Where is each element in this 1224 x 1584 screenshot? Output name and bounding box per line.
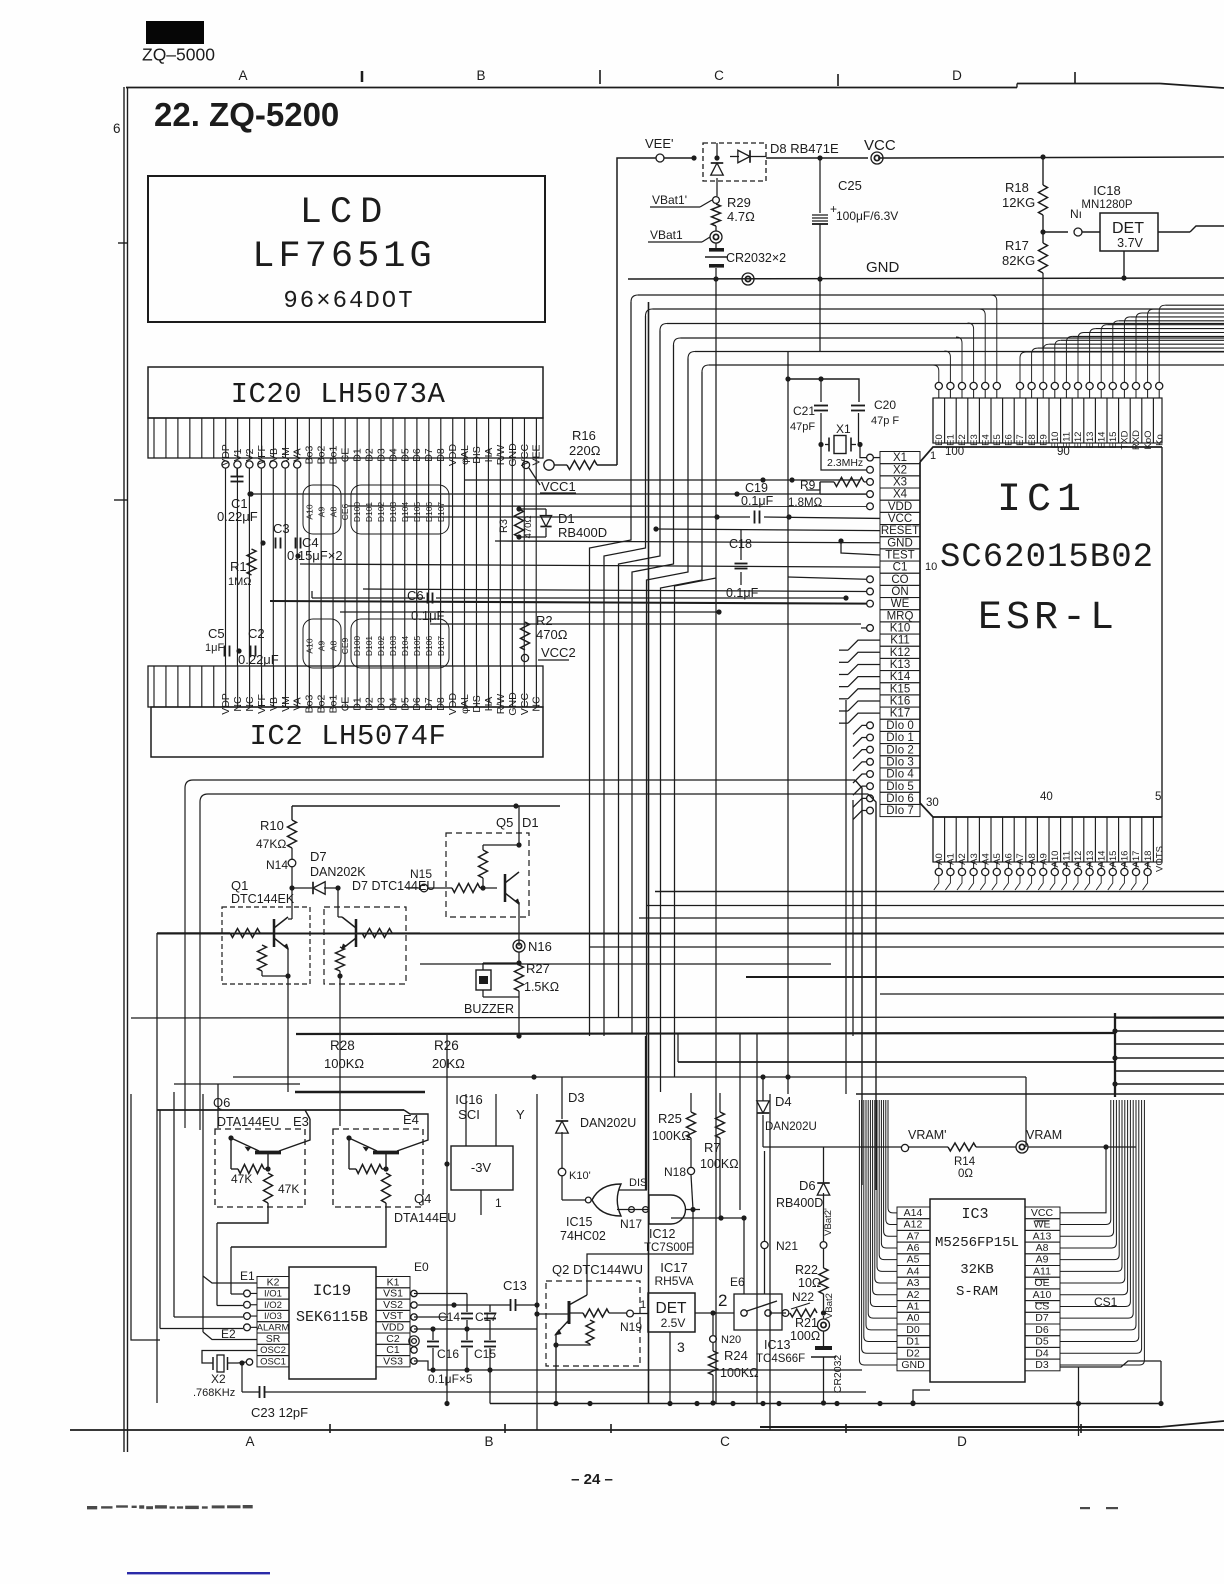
svg-text:KoO: KoO <box>1143 430 1154 449</box>
svg-text:D5: D5 <box>399 697 411 711</box>
svg-text:D3: D3 <box>375 697 387 711</box>
svg-text:VS3: VS3 <box>383 1355 403 1367</box>
svg-text:NC: NC <box>531 696 543 712</box>
svg-text:VDD: VDD <box>382 1322 405 1334</box>
logo block (black) <box>146 21 204 44</box>
svg-text:VB: VB <box>268 448 280 462</box>
svg-text:E0: E0 <box>934 434 945 446</box>
svg-text:R10: R10 <box>260 818 284 833</box>
svg-text:1.8MΩ: 1.8MΩ <box>788 497 823 509</box>
svg-text:DIo 6: DIo 6 <box>886 793 914 805</box>
svg-text:DET: DET <box>656 1300 688 1317</box>
svg-text:2.5V: 2.5V <box>661 1316 686 1330</box>
svg-text:R24: R24 <box>724 1348 748 1363</box>
svg-text:K13: K13 <box>890 659 910 671</box>
svg-text:D106: D106 <box>424 636 434 657</box>
svg-text:D5: D5 <box>1035 1336 1049 1348</box>
svg-text:74HC02: 74HC02 <box>560 1229 606 1243</box>
svg-text:IC1: IC1 <box>997 478 1087 523</box>
IC1 top pin strip <box>933 398 1162 443</box>
svg-text:.768KHz: .768KHz <box>193 1387 235 1399</box>
svg-text:E15: E15 <box>1108 432 1119 449</box>
svg-text:D8 RB471E: D8 RB471E <box>770 141 839 156</box>
svg-text:SCI: SCI <box>458 1107 480 1122</box>
svg-text:D: D <box>952 68 962 83</box>
wire VCC rail <box>766 157 868 159</box>
svg-text:C16: C16 <box>437 1347 459 1361</box>
resistor R9 1.8M <box>867 479 874 486</box>
capacitor C4 <box>295 538 297 549</box>
svg-text:A7: A7 <box>907 1230 920 1242</box>
diode D1 RB400D <box>540 516 551 527</box>
svg-text:D107: D107 <box>436 636 446 657</box>
svg-text:1: 1 <box>495 1196 502 1210</box>
svg-text:5: 5 <box>1155 791 1161 803</box>
svg-text:47p F: 47p F <box>871 415 899 427</box>
svg-text:D102: D102 <box>376 502 386 523</box>
wire bus horizontal top <box>638 294 1224 296</box>
wire verticals left cluster <box>156 933 158 1403</box>
node K10' <box>558 1168 566 1176</box>
svg-text:D4: D4 <box>1035 1347 1049 1359</box>
capacitor C1 <box>231 476 244 478</box>
svg-text:S-RAM: S-RAM <box>956 1284 998 1300</box>
svg-text:0.15μF×2: 0.15μF×2 <box>287 548 343 563</box>
svg-text:D3: D3 <box>568 1090 585 1105</box>
resistor R1 1M <box>247 549 256 575</box>
svg-text:DIS: DIS <box>471 695 483 713</box>
svg-text:DIS: DIS <box>629 1177 647 1189</box>
svg-text:A7: A7 <box>1015 853 1026 865</box>
svg-text:X2: X2 <box>211 1372 226 1386</box>
wire bottom bus lines <box>490 1403 1161 1405</box>
svg-text:A8: A8 <box>1036 1242 1049 1254</box>
svg-text:R3: R3 <box>498 519 510 533</box>
tick left <box>118 242 127 244</box>
svg-text:0Ω: 0Ω <box>958 1168 973 1180</box>
node N14 <box>288 859 296 867</box>
wire right column lines <box>1114 1013 1116 1097</box>
svg-text:D7: D7 <box>423 697 435 711</box>
svg-text:A10: A10 <box>1033 1289 1052 1301</box>
svg-text:DET: DET <box>1112 220 1144 237</box>
wire MRQ row <box>716 609 721 614</box>
svg-text:NC: NC <box>232 696 244 712</box>
svg-text:IC15: IC15 <box>566 1215 592 1229</box>
svg-text:D6: D6 <box>1035 1324 1049 1336</box>
svg-text:A13: A13 <box>1085 851 1096 868</box>
svg-text:A6: A6 <box>907 1242 920 1254</box>
svg-text:A12: A12 <box>904 1219 923 1231</box>
wire heavy vertical <box>648 302 650 1403</box>
svg-text:E14: E14 <box>1096 432 1107 449</box>
IC3 left wire fan <box>888 1100 897 1213</box>
svg-text:N21: N21 <box>776 1239 798 1253</box>
svg-text:TC7S00F: TC7S00F <box>644 1242 693 1254</box>
resistor R10 47K <box>291 806 293 820</box>
svg-text:40: 40 <box>1040 791 1053 803</box>
svg-text:A18: A18 <box>1143 851 1154 868</box>
svg-text:Bo1: Bo1 <box>328 695 340 714</box>
svg-text:1: 1 <box>640 1299 646 1311</box>
svg-text:220Ω: 220Ω <box>569 443 601 458</box>
svg-text:Q1: Q1 <box>231 878 248 893</box>
tick <box>599 70 601 84</box>
svg-text:CO: CO <box>891 574 908 586</box>
svg-text:D101: D101 <box>364 636 374 657</box>
svg-text:A6: A6 <box>1004 853 1015 865</box>
svg-text:SC62015B02: SC62015B02 <box>940 539 1154 577</box>
svg-text:RXD: RXD <box>1131 430 1142 450</box>
svg-text:A5: A5 <box>992 853 1003 865</box>
LCD driver IC20 LH5073A <box>148 367 543 418</box>
wire vcc drop <box>819 279 821 352</box>
svg-text:D0: D0 <box>906 1324 920 1336</box>
svg-text:Ko: Ko <box>1154 434 1165 446</box>
svg-text:E13: E13 <box>1085 432 1096 449</box>
svg-text:A4: A4 <box>980 853 991 865</box>
battery CR2032x2 <box>715 226 717 231</box>
svg-text:D100: D100 <box>352 502 362 523</box>
node N17 bubbles <box>617 1209 649 1211</box>
svg-text:RB400D: RB400D <box>558 525 607 540</box>
svg-text:DIo 2: DIo 2 <box>886 744 914 756</box>
svg-text:R27: R27 <box>526 961 550 976</box>
svg-text:ESR-L: ESR-L <box>978 596 1118 641</box>
svg-text:IC19: IC19 <box>313 1282 351 1300</box>
svg-text:47pF: 47pF <box>790 421 815 433</box>
svg-text:A9: A9 <box>316 641 326 652</box>
svg-text:D104: D104 <box>400 502 410 523</box>
IC1 bottom pin circles <box>935 868 942 875</box>
svg-text:I/O3: I/O3 <box>264 1311 282 1322</box>
svg-text:E4: E4 <box>403 1112 419 1127</box>
svg-text:1MΩ: 1MΩ <box>228 576 252 588</box>
svg-text:0.22μF: 0.22μF <box>238 652 279 667</box>
rotated bus labels lower <box>303 619 341 668</box>
wire VEE <box>664 157 694 159</box>
svg-text:MRQ: MRQ <box>887 610 914 622</box>
svg-text:D7: D7 <box>1035 1312 1049 1324</box>
bottom tick <box>610 1424 612 1433</box>
svg-text:VA: VA <box>292 697 304 710</box>
svg-text:E12: E12 <box>1073 432 1084 449</box>
capacitor C6 <box>427 593 429 604</box>
svg-text:A12: A12 <box>1073 851 1084 868</box>
svg-text:A10: A10 <box>304 638 314 653</box>
svg-text:A17: A17 <box>1131 851 1142 868</box>
svg-text:GND: GND <box>901 1359 925 1371</box>
svg-text:D101: D101 <box>364 502 374 523</box>
controller IC19 SEK6115B <box>289 1267 376 1379</box>
svg-text:82KG: 82KG <box>1002 253 1035 268</box>
svg-text:X4: X4 <box>893 489 908 501</box>
svg-text:Y: Y <box>516 1107 525 1122</box>
wire vram vertical <box>1025 1077 1027 1147</box>
svg-text:VRAM: VRAM <box>1026 1128 1062 1142</box>
svg-text:C: C <box>714 68 724 83</box>
svg-text:K16: K16 <box>890 696 910 708</box>
svg-text:A10: A10 <box>1050 851 1061 868</box>
svg-text:VOTS: VOTS <box>1154 846 1165 872</box>
svg-text:VCC1: VCC1 <box>541 479 576 494</box>
buzzer <box>483 962 519 964</box>
svg-text:E6: E6 <box>1004 434 1015 446</box>
svg-text:47K: 47K <box>278 1182 299 1196</box>
fine print line <box>87 1505 1118 1509</box>
svg-text:-3V: -3V <box>471 1160 492 1175</box>
IC20 pin circles <box>222 461 229 468</box>
svg-text:A3: A3 <box>969 853 980 865</box>
svg-text:A0: A0 <box>934 853 945 865</box>
wire y1218 <box>671 1217 744 1219</box>
svg-text:D3: D3 <box>1035 1359 1049 1371</box>
resistor R2 470 <box>521 622 530 650</box>
battery CR2032 <box>815 1346 832 1350</box>
wire ic3 bottom <box>890 1382 913 1395</box>
svg-text:V2: V2 <box>244 448 256 461</box>
svg-text:E6: E6 <box>730 1275 745 1289</box>
svg-text:N18: N18 <box>664 1165 686 1179</box>
svg-text:R14: R14 <box>954 1156 976 1168</box>
svg-text:47KΩ: 47KΩ <box>256 837 286 851</box>
svg-text:CR2032×2: CR2032×2 <box>726 251 786 265</box>
wire battery vertical <box>715 279 717 1403</box>
wire left staircase verticals <box>202 1094 204 1332</box>
svg-text:Bo3: Bo3 <box>304 695 316 714</box>
svg-text:VBat1: VBat1 <box>650 228 683 242</box>
svg-text:E0: E0 <box>414 1260 429 1274</box>
svg-text:VB: VB <box>268 697 280 711</box>
svg-text:A13: A13 <box>1033 1230 1052 1242</box>
svg-text:D6: D6 <box>799 1178 816 1193</box>
node N19 <box>627 1310 634 1317</box>
svg-text:K14: K14 <box>890 671 911 683</box>
svg-text:D7 DTC144EU: D7 DTC144EU <box>352 879 435 893</box>
svg-text:DIo 1: DIo 1 <box>886 732 914 744</box>
svg-text:D100: D100 <box>352 636 362 657</box>
capacitor C5 <box>224 646 226 657</box>
svg-text:D105: D105 <box>412 636 422 657</box>
svg-text:C17: C17 <box>475 1310 497 1324</box>
crystal X2 32.768KHz <box>202 1351 257 1364</box>
svg-text:IC17: IC17 <box>660 1260 687 1275</box>
svg-text:C15: C15 <box>474 1347 496 1361</box>
svg-text:R7: R7 <box>704 1140 721 1155</box>
svg-text:A: A <box>245 1434 254 1449</box>
wire bus IC20 to IC2 verticals <box>225 468 227 666</box>
svg-text:0.1μF: 0.1μF <box>411 608 445 623</box>
svg-text:DTA144EU: DTA144EU <box>394 1211 456 1225</box>
svg-text:1.5KΩ: 1.5KΩ <box>524 980 559 994</box>
capacitor C3 <box>275 538 277 549</box>
svg-text:X1: X1 <box>836 422 851 436</box>
wire DIo rows <box>867 722 874 729</box>
svg-text:VDP: VDP <box>220 693 232 715</box>
svg-text:K10': K10' <box>569 1170 591 1182</box>
svg-text:A15: A15 <box>1108 851 1119 868</box>
IC3 right pins <box>1025 1207 1060 1219</box>
diode pack D8 RB471E <box>703 143 766 181</box>
svg-text:A2: A2 <box>957 853 968 865</box>
wire misc verticals bottom <box>677 1033 679 1062</box>
svg-text:Nı: Nı <box>1070 207 1082 221</box>
bottom tick <box>329 1424 331 1433</box>
svg-text:SEK6115B: SEK6115B <box>296 1309 368 1326</box>
resistor R18 12K <box>1040 154 1045 159</box>
svg-text:N15: N15 <box>410 867 432 881</box>
svg-text:K15: K15 <box>890 683 910 695</box>
svg-text:VST: VST <box>383 1310 404 1322</box>
svg-text:Q4: Q4 <box>414 1191 431 1206</box>
capacitor C21 47pF <box>820 379 822 402</box>
svg-text:IC3: IC3 <box>961 1206 988 1223</box>
svg-text:N17: N17 <box>620 1217 642 1231</box>
svg-text:V1: V1 <box>232 448 244 461</box>
svg-text:– 24 –: – 24 – <box>571 1471 613 1488</box>
svg-text:D103: D103 <box>388 502 398 523</box>
svg-text:D1: D1 <box>351 697 363 711</box>
svg-text:0.1μF×5: 0.1μF×5 <box>428 1372 473 1386</box>
svg-text:E2: E2 <box>957 434 968 446</box>
wire ic1 bottom fan <box>934 876 939 890</box>
svg-text:R9: R9 <box>800 478 816 492</box>
node N20 <box>710 1336 717 1343</box>
svg-text:D2: D2 <box>363 697 375 711</box>
IC1 top pin circles <box>935 382 942 389</box>
svg-text:CR2032: CR2032 <box>832 1355 844 1394</box>
node VBat1 <box>710 231 722 243</box>
svg-text:D4: D4 <box>387 697 399 711</box>
border frame <box>123 87 125 1452</box>
svg-text:4.7Ω: 4.7Ω <box>727 209 755 224</box>
wire pair down right <box>855 780 862 1185</box>
svg-text:R29: R29 <box>727 195 751 210</box>
wire bus extra line <box>675 578 717 1077</box>
svg-text:VCC: VCC <box>1031 1207 1054 1219</box>
svg-text:A14: A14 <box>1096 851 1107 868</box>
wire rail above Q6 <box>157 1109 404 1111</box>
bottom tick <box>504 1424 506 1433</box>
wire C1 row <box>300 564 880 567</box>
svg-text:D105: D105 <box>412 502 422 523</box>
wire VCC row with C19 <box>405 516 750 518</box>
svg-text:K10: K10 <box>890 623 910 635</box>
svg-text:12KG: 12KG <box>1002 195 1035 210</box>
svg-text:B: B <box>476 68 485 83</box>
svg-text:K1: K1 <box>387 1276 400 1288</box>
wire q5 top rail <box>292 805 516 807</box>
svg-text:DIo 7: DIo 7 <box>886 805 914 817</box>
svg-text:RB400D: RB400D <box>776 1196 823 1210</box>
tick <box>1074 72 1076 84</box>
svg-text:R16: R16 <box>572 428 596 443</box>
svg-text:R1: R1 <box>230 559 247 574</box>
resistor R21 100 <box>790 1309 817 1317</box>
wire CO row <box>867 576 874 583</box>
resistor R16 220 <box>522 461 529 468</box>
svg-text:A10: A10 <box>304 504 314 519</box>
svg-text:A16: A16 <box>1120 851 1131 868</box>
svg-text:C19: C19 <box>745 481 768 495</box>
LCD driver IC2 LH5074F <box>151 707 543 757</box>
svg-text:DTC144EK: DTC144EK <box>231 892 295 906</box>
svg-text:1: 1 <box>930 450 936 462</box>
svg-text:R17: R17 <box>1005 238 1029 253</box>
svg-text:VCC: VCC <box>519 692 531 715</box>
wire base rail left <box>157 932 230 934</box>
svg-text:E8: E8 <box>1027 434 1038 446</box>
wire nand out down <box>587 1210 693 1296</box>
svg-text:E1: E1 <box>240 1269 255 1283</box>
wire rows into left bus <box>465 479 860 481</box>
svg-text:DTA144EU: DTA144EU <box>217 1115 279 1129</box>
svg-text:BUZZER: BUZZER <box>464 1002 514 1016</box>
svg-text:R21: R21 <box>795 1316 818 1330</box>
svg-text:ON: ON <box>891 586 908 598</box>
wire K11-K17 bends <box>848 640 880 650</box>
tick left2 <box>114 499 127 501</box>
node N21 <box>761 1241 768 1248</box>
svg-text:X3: X3 <box>893 477 907 489</box>
wire x1 top rail <box>788 379 859 402</box>
capacitor C20 47pF <box>851 405 865 407</box>
svg-text:A5: A5 <box>907 1254 920 1266</box>
svg-text:D107: D107 <box>436 502 446 523</box>
svg-text:VBat2': VBat2' <box>823 1208 834 1236</box>
svg-text:47K: 47K <box>231 1172 252 1186</box>
node VCC1 <box>529 468 540 485</box>
svg-text:N14: N14 <box>266 858 288 872</box>
wire horizontals mid <box>157 933 1224 935</box>
svg-text:A8: A8 <box>1027 853 1038 865</box>
svg-text:VRAM': VRAM' <box>908 1128 947 1142</box>
svg-text:VEE': VEE' <box>645 136 674 151</box>
wire bus under IC1 <box>655 891 1224 893</box>
svg-text:A4: A4 <box>907 1265 920 1277</box>
svg-text:WE: WE <box>891 598 910 610</box>
svg-text:C2: C2 <box>248 626 265 641</box>
wire drops to IC1 top pins <box>933 365 939 382</box>
svg-text:K17: K17 <box>890 708 910 720</box>
wire right rail verticals <box>1078 1367 1080 1436</box>
svg-text:DAN202U: DAN202U <box>765 1121 817 1133</box>
svg-text:D103: D103 <box>388 636 398 657</box>
svg-text:470Ω: 470Ω <box>523 516 534 539</box>
bottom tick <box>1080 1424 1082 1433</box>
svg-text:NC: NC <box>244 696 256 712</box>
svg-text:DIo 5: DIo 5 <box>886 781 914 793</box>
svg-text:TEST: TEST <box>885 550 914 562</box>
svg-text:A0: A0 <box>907 1312 920 1324</box>
IC3 left pins <box>897 1207 930 1219</box>
svg-text:D6: D6 <box>411 697 423 711</box>
svg-text:IC2 LH5074F: IC2 LH5074F <box>250 720 447 753</box>
IC1 bottom pin strip <box>933 817 1162 862</box>
svg-text:VDD: VDD <box>888 501 912 513</box>
svg-text:100: 100 <box>945 446 964 458</box>
svg-text:D: D <box>957 1434 967 1449</box>
svg-text:E7: E7 <box>1015 434 1026 446</box>
svg-text:A9: A9 <box>316 507 326 518</box>
IC19 right wires <box>414 1293 467 1295</box>
svg-text:C5: C5 <box>208 626 225 641</box>
wire corner nest below IC2 <box>184 788 186 792</box>
svg-text:A14: A14 <box>904 1207 923 1219</box>
svg-text:DIo 3: DIo 3 <box>886 756 914 768</box>
svg-text:1μF: 1μF <box>205 642 224 654</box>
svg-text:100KΩ: 100KΩ <box>720 1366 759 1380</box>
